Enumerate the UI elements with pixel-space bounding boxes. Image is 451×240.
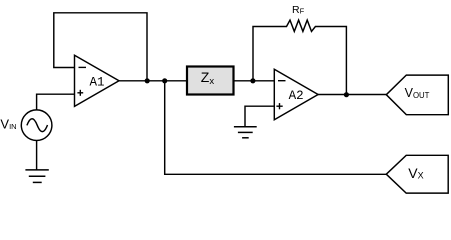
svg-text:A2: A2 bbox=[289, 89, 304, 103]
svg-text:VIN: VIN bbox=[0, 116, 16, 131]
svg-text:A1: A1 bbox=[90, 75, 105, 89]
svg-text:RF: RF bbox=[292, 4, 305, 16]
